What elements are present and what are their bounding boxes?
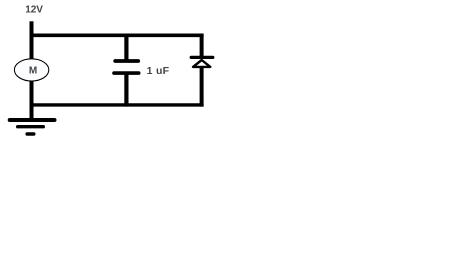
wire: diode top lead bbox=[200, 34, 204, 58]
ground bbox=[10, 120, 55, 134]
wire: capacitor top lead bbox=[124, 34, 128, 61]
wire: diode bottom lead bbox=[200, 67, 204, 107]
wire: motor to ground bbox=[30, 79, 34, 121]
svg-text:M: M bbox=[29, 66, 37, 77]
node 12V label bbox=[25, 4, 43, 15]
wire: top rail bbox=[30, 33, 204, 37]
wire: bottom rail bbox=[30, 103, 204, 106]
wire: capacitor bottom lead bbox=[124, 74, 128, 107]
capacitor C1 bbox=[114, 61, 139, 73]
svg-text:1 uF: 1 uF bbox=[147, 65, 170, 77]
diode D1 bbox=[191, 57, 213, 67]
motor M1 bbox=[14, 59, 48, 81]
value label 1 uF bbox=[147, 65, 170, 77]
wire: 12V feed down to motor bbox=[30, 21, 34, 61]
svg-text:12V: 12V bbox=[25, 4, 43, 15]
